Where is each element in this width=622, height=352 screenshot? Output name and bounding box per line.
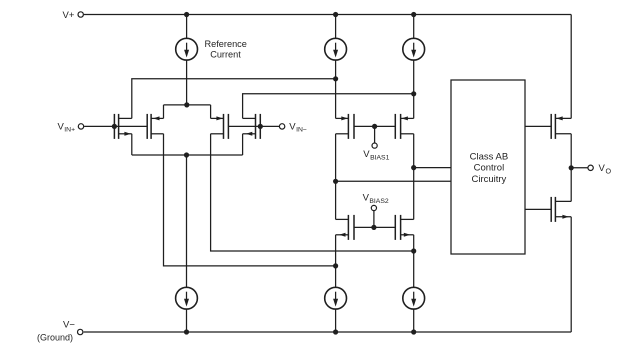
- node dot V_BIAS2: [371, 225, 376, 230]
- terminal V_IN-: [279, 124, 284, 129]
- svg-text:IN+: IN+: [64, 127, 75, 134]
- node dot M4 drain at I3 column: [411, 91, 416, 96]
- wire M4 source down to tail: [242, 134, 244, 155]
- svg-text:(Ground): (Ground): [37, 333, 73, 343]
- wire PMOS tail joining line: [164, 104, 211, 106]
- node dot right cascode box tap: [411, 165, 416, 170]
- node dot M4 gate: [258, 124, 263, 129]
- terminal V+: [78, 12, 83, 17]
- current source I4 (bottom middle, input tail): [176, 155, 198, 332]
- wire V_BIAS2 gate net: [354, 211, 395, 228]
- svg-text:BIAS2: BIAS2: [369, 198, 388, 205]
- transistor M9 (output PMOS): [551, 114, 571, 139]
- node dot bottom rail at I4: [184, 329, 189, 334]
- wire M1 source down to tail: [131, 134, 133, 155]
- transistor M1 (input NMOS, left): [114, 114, 131, 139]
- svg-text:Reference: Reference: [205, 39, 247, 49]
- terminal V_O: [588, 165, 593, 170]
- terminal V- (Ground): [78, 329, 83, 334]
- svg-text:V−: V−: [63, 319, 75, 330]
- wire bottom V- rail: [84, 331, 572, 333]
- wire M3 drain down and across to I6: [211, 134, 414, 251]
- svg-text:V: V: [599, 163, 606, 174]
- svg-text:Control: Control: [474, 163, 505, 174]
- svg-text:Circuitry: Circuitry: [471, 174, 506, 185]
- wire M1 drain up and across to I2: [132, 79, 336, 119]
- node dot M2 drain joins I5 column: [333, 263, 338, 268]
- wire M2 source up to tail node: [163, 105, 165, 119]
- node dot top rail at I3: [411, 12, 416, 17]
- wire right-side V- rise to output NMOS: [570, 217, 572, 332]
- wire V_IN+ gate line: [84, 125, 147, 127]
- transistor M8 (cascode NMOS, right): [395, 215, 413, 240]
- wire left cascode column: [335, 134, 337, 220]
- wire M10 drain up to output node: [570, 168, 572, 202]
- transistor M2 (input PMOS, left): [147, 114, 163, 139]
- svg-text:BIAS1: BIAS1: [370, 154, 389, 161]
- node dot M1 drain at I2 column: [333, 76, 338, 81]
- transistor M10 (output NMOS): [551, 197, 571, 222]
- node dot output V_O: [569, 165, 574, 170]
- transistor M3 (input PMOS, right): [211, 114, 229, 139]
- transistor M7 (cascode NMOS, left): [336, 215, 354, 240]
- transistor M6 (cascode PMOS, right): [395, 114, 413, 139]
- node dot left cascode box tap: [333, 179, 338, 184]
- svg-text:Class AB: Class AB: [470, 151, 509, 162]
- wire NMOS input tail line: [132, 154, 243, 156]
- wire output node to V_O terminal: [571, 167, 587, 169]
- node dot bottom rail at I6: [411, 329, 416, 334]
- Class AB control circuitry box U1: [451, 80, 525, 254]
- wire top V+ rail: [84, 14, 571, 16]
- wire box to M9 gate: [525, 125, 551, 127]
- wire box to M10 gate: [525, 208, 551, 210]
- node dot top rail at I2: [333, 12, 338, 17]
- current source I1 reference current: [176, 15, 198, 105]
- svg-text:IN−: IN−: [296, 127, 307, 134]
- wire V_BIAS1 gate net: [354, 126, 395, 142]
- node dot M3 drain joins I6 column: [411, 248, 416, 253]
- current source I2 (top middle): [325, 15, 347, 119]
- wire M7 source down to I5: [335, 235, 337, 287]
- svg-text:V+: V+: [63, 10, 75, 21]
- node dot NMOS input tail: [184, 152, 189, 157]
- wire right-side V+ drop to output PMOS: [570, 15, 572, 119]
- wire M3 source up to tail node: [210, 105, 212, 119]
- current source I6 (bottom right of mirror): [403, 287, 425, 332]
- wire right cascode to Class AB box: [414, 167, 451, 169]
- transistor M5 (cascode PMOS, left): [336, 114, 354, 139]
- svg-text:Current: Current: [210, 50, 241, 60]
- terminal V_BIAS1: [372, 143, 377, 148]
- node dot M1 gate: [112, 124, 117, 129]
- wire M4 drain up and across to I3: [243, 94, 414, 119]
- node dot PMOS tail: [184, 102, 189, 107]
- node dot V_BIAS1: [372, 124, 377, 129]
- wire right cascode column: [413, 134, 415, 220]
- node dot top rail at reference current: [184, 12, 189, 17]
- wire V_IN- gate line: [228, 125, 279, 127]
- terminal V_BIAS2: [371, 205, 376, 210]
- node dot bottom rail at I5: [333, 329, 338, 334]
- wire M8 source down to I6: [413, 235, 415, 287]
- svg-text:O: O: [606, 167, 612, 176]
- current source I5 (bottom left of mirror): [325, 287, 347, 332]
- transistor M4 (input NMOS, right): [243, 114, 261, 139]
- current source I3 (top right): [403, 15, 425, 119]
- wire M2 drain down and across to I5: [164, 134, 336, 266]
- wire M9 drain down to output node: [570, 134, 572, 168]
- terminal V_IN+: [78, 124, 83, 129]
- wire left cascode to Class AB box: [336, 180, 451, 182]
